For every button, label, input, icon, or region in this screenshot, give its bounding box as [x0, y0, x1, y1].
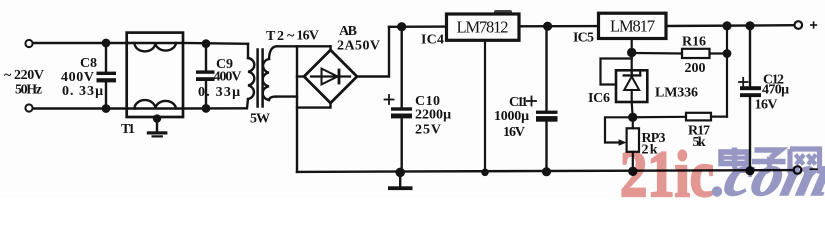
capacitor C9: [196, 40, 215, 111]
wire top input to T1: [33, 42, 128, 44]
svg-text:LM817: LM817: [610, 17, 655, 36]
svg-text:~ 220V: ~ 220V: [4, 68, 44, 83]
svg-text:LM7812: LM7812: [457, 18, 509, 37]
regulator IC4 LM7812: [447, 14, 520, 40]
bridge rectifier AB: [304, 50, 357, 103]
svg-text:R16: R16: [682, 35, 706, 50]
wire LM817 adj pin: [631, 39, 633, 71]
svg-text:25V: 25V: [415, 123, 441, 138]
transformer T1 (line filter): [127, 33, 183, 117]
svg-text:AB: AB: [339, 24, 357, 39]
regulator IC5 LM817: [599, 13, 667, 38]
wire top rail right: [666, 24, 794, 27]
svg-text:21ic: 21ic: [620, 138, 714, 198]
wire bottom input to T1: [33, 107, 128, 109]
wire LM7812 gnd pin: [484, 41, 486, 173]
svg-text:0. 33μ: 0. 33μ: [62, 84, 103, 99]
ground under T1: [147, 116, 168, 138]
wire bridge right corner to top rail: [357, 27, 389, 77]
wire top rail left: [389, 25, 447, 28]
transformer T2: [247, 44, 277, 109]
CJK wang: [790, 149, 820, 174]
capacitor C12: [739, 26, 761, 174]
svg-text:50Hz: 50Hz: [15, 83, 42, 98]
svg-text:2A50V: 2A50V: [337, 39, 380, 54]
zener IC6 LM336: [601, 59, 648, 103]
wire LM336 bottom: [632, 102, 633, 117]
capacitor C11: [527, 26, 558, 175]
node rail/C12: [747, 22, 754, 29]
wire bridge bottom link: [297, 103, 331, 108]
svg-text:16V: 16V: [755, 98, 778, 113]
wire bottom rail: [297, 170, 794, 172]
wire T1 to T2 bottom: [183, 107, 246, 110]
node minus mark: [811, 168, 817, 170]
wire T2 secondary top to bridge: [277, 45, 331, 47]
node rail/ground: [397, 169, 404, 176]
watermark 21ic.com: [620, 138, 825, 211]
CJK dian: [721, 148, 749, 171]
svg-text:16V: 16V: [503, 125, 525, 140]
svg-text:IC4: IC4: [421, 33, 444, 48]
scan smudge above IC4 box: [494, 10, 512, 15]
resistor R17: [633, 113, 727, 121]
svg-text:C8: C8: [80, 56, 97, 71]
svg-text:200: 200: [685, 61, 706, 76]
svg-text:0. 33μ: 0. 33μ: [198, 85, 240, 100]
svg-text:400V: 400V: [61, 70, 94, 85]
node output terminal top: [795, 21, 803, 29]
svg-text:T1: T1: [121, 122, 135, 137]
svg-text:1000μ: 1000μ: [494, 109, 529, 124]
potentiometer RP3: [605, 117, 639, 175]
svg-text:470μ: 470μ: [762, 83, 789, 98]
svg-text:IC6: IC6: [588, 91, 610, 106]
capacitor C10: [385, 27, 413, 173]
svg-text:400V: 400V: [214, 70, 242, 85]
wire bridge left corner stub: [297, 75, 305, 77]
wire vertical AC branch: [296, 46, 298, 172]
wire bridge top stub: [329, 46, 331, 50]
svg-text:IC5: IC5: [573, 31, 594, 46]
node rail/R: [724, 23, 731, 30]
wire adj to R16: [632, 52, 682, 55]
node N input terminal bottom: [25, 104, 32, 111]
node plus mark: [811, 22, 817, 28]
CJK zi: [752, 150, 786, 172]
node adj: [628, 49, 635, 56]
ground main: [388, 172, 413, 190]
node output terminal bottom: [794, 166, 802, 174]
node rail/C11: [544, 23, 551, 30]
wire T2 secondary bottom lead: [276, 95, 297, 97]
svg-text:LM336: LM336: [655, 86, 698, 101]
wire T1 to T2 top: [183, 42, 248, 45]
node rail/C10: [398, 23, 405, 30]
svg-text:T2: T2: [266, 29, 284, 44]
wire top rail mid: [519, 25, 599, 28]
svg-text:2200μ: 2200μ: [415, 108, 451, 123]
svg-text:~ 16V: ~ 16V: [287, 29, 319, 44]
node L input terminal top: [25, 40, 32, 47]
capacitor C8: [97, 40, 117, 112]
svg-text:5W: 5W: [250, 112, 270, 127]
svg-text:C11: C11: [509, 95, 528, 110]
resistor R16: [682, 49, 730, 58]
wire vertical R16/R17 to rail: [726, 26, 728, 117]
